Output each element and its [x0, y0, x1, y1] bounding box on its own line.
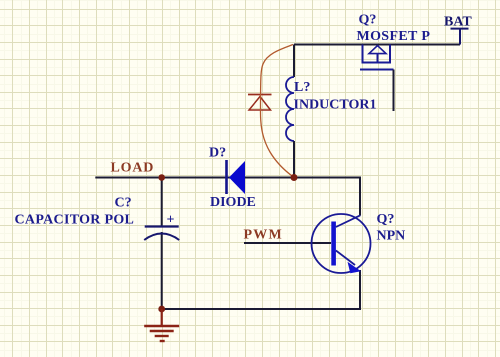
svg-text:L?: L?: [294, 80, 310, 95]
svg-text:NPN: NPN: [377, 229, 406, 244]
svg-text:LOAD: LOAD: [111, 161, 155, 176]
wire red freeform: [261, 45, 294, 178]
wire bottom rail: [162, 308, 361, 310]
wire gate stub: [393, 70, 395, 112]
diode D?: [209, 146, 256, 211]
junction node LOAD/cap: [158, 174, 165, 181]
wire PWM lead: [244, 242, 331, 244]
svg-text:INDUCTOR1: INDUCTOR1: [294, 98, 377, 113]
svg-text:+: +: [167, 213, 175, 228]
junction node ground: [158, 306, 165, 313]
transistor Q? NPN: [312, 212, 406, 273]
wire collector vertical: [359, 178, 361, 216]
wire capacitor bottom lead: [161, 232, 163, 309]
wire left vertical lower: [293, 141, 295, 178]
svg-text:Q?: Q?: [377, 212, 395, 227]
junction node inductor/diode: [291, 174, 298, 181]
svg-text:Q?: Q?: [359, 13, 377, 28]
capacitor C?: [15, 196, 180, 241]
ground: [144, 309, 179, 341]
power port BAT: [444, 15, 472, 45]
svg-text:PWM: PWM: [244, 228, 283, 243]
svg-text:BAT: BAT: [444, 15, 472, 30]
transistor Q? MOSFET P: [357, 13, 431, 70]
svg-text:DIODE: DIODE: [210, 195, 256, 210]
svg-text:C?: C?: [115, 196, 132, 211]
wire capacitor top lead: [161, 178, 163, 227]
wire LOAD rail: [95, 177, 361, 179]
wire emitter vertical: [359, 270, 361, 309]
svg-text:CAPACITOR POL: CAPACITOR POL: [15, 213, 135, 228]
svg-text:MOSFET P: MOSFET P: [357, 29, 431, 44]
svg-text:D?: D?: [209, 146, 226, 161]
wire left vertical upper: [293, 45, 295, 78]
wire top rail: [294, 44, 460, 46]
inductor L?: [286, 77, 376, 141]
diode D2 red flyback: [248, 95, 272, 111]
